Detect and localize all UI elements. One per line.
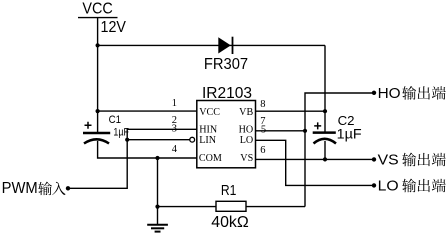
resistor R1 [216, 201, 246, 211]
LIN inverter bubble [190, 137, 195, 142]
svg-text:1µF: 1µF [337, 126, 362, 141]
svg-text:1: 1 [172, 98, 177, 109]
label 输出端 (output terminal) characters for VS [402, 153, 416, 167]
svg-text:COM: COM [199, 153, 222, 164]
svg-text:LO: LO [240, 135, 253, 146]
svg-text:40kΩ: 40kΩ [211, 214, 249, 231]
svg-text:LIN: LIN [199, 135, 217, 146]
junction LIN node [125, 138, 129, 142]
wire LO pin 5 [256, 140, 375, 185]
IC U1 IR2103 box [197, 101, 256, 168]
junction VS node at C2 [323, 157, 327, 161]
wire VS pin 6 [256, 158, 375, 160]
svg-text:4: 4 [172, 144, 178, 155]
svg-text:VCC: VCC [82, 0, 112, 17]
svg-text:LO: LO [378, 178, 399, 195]
wire COM pin 4 and C1 bottom [98, 141, 197, 158]
svg-text:HIN: HIN [199, 124, 218, 135]
junction HO node [303, 129, 307, 133]
wire VCC vertical down to C1 [97, 18, 99, 133]
capacitor C2 [313, 122, 336, 143]
label 输出端 (output terminal) characters for HO [402, 86, 416, 100]
svg-text:PWM: PWM [2, 180, 38, 197]
wire LIN pin 3 [127, 139, 190, 141]
junction VB node [323, 109, 327, 113]
wire right vertical from rail to VB/C2 [324, 45, 326, 132]
svg-text:12V: 12V [101, 19, 127, 36]
VCC power symbol bar [78, 17, 118, 19]
svg-text:3: 3 [172, 124, 177, 135]
wire HO pin 7 [256, 130, 306, 132]
svg-text:HO: HO [378, 85, 401, 102]
terminal PWM input [66, 186, 70, 190]
terminal VS output [372, 157, 376, 161]
svg-text:FR307: FR307 [204, 56, 248, 73]
wire VCC pin 1 [98, 110, 197, 112]
wire HO node vertical [305, 93, 374, 207]
wire VB pin 8 [256, 110, 326, 112]
svg-text:5: 5 [261, 125, 266, 136]
wire top rail to diode and right [98, 44, 325, 46]
terminal HO output [372, 91, 376, 95]
svg-text:6: 6 [260, 145, 265, 156]
capacitor C1 [83, 122, 110, 144]
junction VCC pin 1 node [96, 109, 100, 113]
svg-text:VCC: VCC [199, 107, 220, 118]
wire C2 bottom to VS [324, 141, 326, 159]
wire R1 row [158, 206, 306, 208]
svg-text:1µF: 1µF [113, 127, 129, 139]
svg-text:8: 8 [260, 99, 265, 110]
junction COM/ground node [155, 156, 159, 160]
svg-text:C1: C1 [109, 114, 122, 126]
svg-text:IR2103: IR2103 [202, 85, 252, 102]
wire ground vertical [157, 158, 159, 224]
svg-text:VS: VS [378, 152, 399, 169]
ground [147, 225, 168, 232]
svg-text:VB: VB [239, 107, 253, 118]
svg-text:VS: VS [240, 153, 253, 164]
junction on VCC rail [96, 43, 100, 47]
terminal LO output [372, 183, 376, 187]
diode D1 FR307 [218, 37, 232, 54]
label 输出端 (output terminal) characters for LO [402, 179, 416, 193]
wire HIN pin 2 [68, 129, 197, 188]
label 输入 (input) characters [38, 182, 52, 196]
svg-text:HO: HO [239, 124, 254, 135]
svg-text:R1: R1 [221, 182, 237, 199]
junction R1 left / ground [155, 205, 159, 209]
